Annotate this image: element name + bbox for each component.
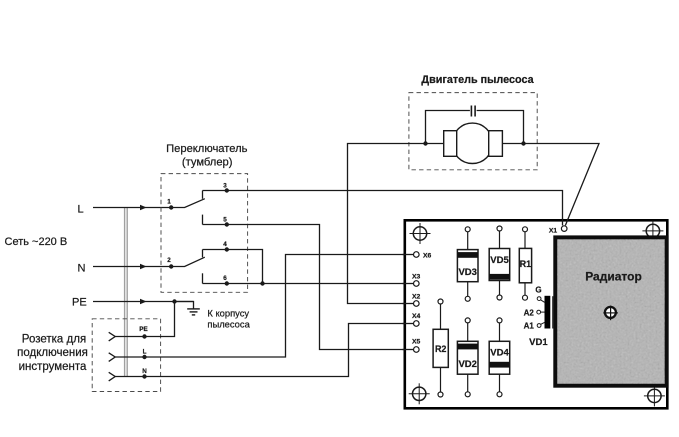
svg-text:пылесоса: пылесоса <box>207 319 250 330</box>
svg-text:N: N <box>142 368 147 375</box>
diode VD2 <box>457 318 478 397</box>
contact 3 stub <box>202 191 204 199</box>
wire socket L to X6 <box>115 255 413 358</box>
arrow N <box>140 264 147 270</box>
wire PE to ground <box>175 302 194 309</box>
svg-text:L: L <box>143 348 147 355</box>
wire capacitor branch <box>426 111 524 144</box>
svg-text:подключения: подключения <box>17 347 88 359</box>
diode VD3 <box>457 227 478 301</box>
wire motor left lead to X2 <box>348 144 444 304</box>
switch pole 1 lever <box>171 199 205 208</box>
svg-text:X6: X6 <box>423 253 432 260</box>
svg-text:Двигатель пылесоса: Двигатель пылесоса <box>421 74 534 86</box>
svg-text:VD5: VD5 <box>490 255 509 266</box>
switch box dashed <box>161 174 248 293</box>
triac VD1 <box>524 286 553 349</box>
svg-text:4: 4 <box>223 241 227 248</box>
mounting hole bottom-right <box>644 385 665 406</box>
heatsink hole <box>603 306 618 321</box>
node 2 <box>169 264 173 268</box>
wire stub X4 <box>403 323 414 325</box>
svg-text:VD2: VD2 <box>458 359 476 370</box>
terminal X2 <box>414 301 420 307</box>
PCB board <box>405 220 668 408</box>
resistor R1 <box>519 227 531 300</box>
motor brush left <box>444 131 457 157</box>
wire contact3 into X1 over border <box>562 219 564 226</box>
wire contact4 to junction <box>203 250 263 284</box>
socket box dashed <box>92 319 160 392</box>
wire PE branch to socket <box>115 302 174 337</box>
svg-text:5: 5 <box>223 217 227 224</box>
node socket PE <box>142 334 146 338</box>
switch pole 2 lever <box>171 257 205 266</box>
diode VD5 <box>489 226 510 300</box>
svg-text:VD4: VD4 <box>490 348 509 359</box>
pin A2 <box>541 311 545 313</box>
svg-text:R2: R2 <box>435 344 447 354</box>
wire PE <box>93 301 194 303</box>
node 3 <box>225 188 229 192</box>
wire motor right lead <box>502 144 599 226</box>
contact 4 stub <box>202 250 204 258</box>
node 1 <box>169 205 173 209</box>
mounting hole top-right <box>642 220 663 241</box>
svg-text:Радиатор: Радиатор <box>585 269 642 283</box>
terminal X4 <box>414 321 420 327</box>
socket L prong <box>109 353 116 362</box>
svg-text:2: 2 <box>167 257 171 264</box>
wire stub X6 <box>403 254 414 256</box>
motor brush right <box>489 131 503 157</box>
cable gray line <box>125 208 128 377</box>
svg-text:VD3: VD3 <box>458 267 476 278</box>
wire N <box>93 266 171 268</box>
diode VD4 <box>489 318 510 397</box>
terminal X1 <box>561 226 567 232</box>
mounting hole bottom-left <box>409 383 430 404</box>
mounting hole top-left <box>410 223 431 244</box>
terminal X5 <box>414 347 420 353</box>
svg-text:1: 1 <box>167 199 171 206</box>
svg-text:Розетка для: Розетка для <box>22 334 86 346</box>
svg-text:Переключатель: Переключатель <box>166 143 248 155</box>
svg-text:R1: R1 <box>520 259 532 269</box>
node socket L <box>142 355 146 359</box>
wire motor lead into X1 over border <box>565 219 568 226</box>
svg-text:Сеть ~220 В: Сеть ~220 В <box>5 236 68 248</box>
wire contact6 to X3 <box>203 283 414 285</box>
wire contact3 to X1 <box>203 191 563 226</box>
svg-text:PE: PE <box>72 297 87 309</box>
ground <box>187 309 200 315</box>
svg-text:X5: X5 <box>412 339 421 346</box>
svg-text:G: G <box>535 286 541 295</box>
wire stub X2 <box>403 303 414 305</box>
pin G <box>541 300 545 303</box>
motor M1 rotor <box>452 123 492 163</box>
capacitor C <box>471 106 475 117</box>
terminal X6 <box>414 252 420 258</box>
contact 6 stub <box>202 273 204 283</box>
node 4 <box>225 247 229 251</box>
svg-text:PE: PE <box>139 326 147 333</box>
svg-text:A1: A1 <box>524 322 535 331</box>
svg-text:A2: A2 <box>524 308 535 317</box>
resistor R2 <box>433 299 448 397</box>
junction 4-6 <box>260 281 264 285</box>
svg-text:инструмента: инструмента <box>19 361 87 373</box>
node socket N <box>142 374 146 378</box>
motor box dashed <box>409 93 537 170</box>
node 6 <box>225 281 229 285</box>
svg-text:L: L <box>78 204 84 216</box>
svg-text:X1: X1 <box>549 228 558 235</box>
svg-text:6: 6 <box>223 275 227 282</box>
pin A1 <box>541 322 545 324</box>
svg-text:(тумблер): (тумблер) <box>182 157 233 169</box>
socket PE prong <box>109 332 116 341</box>
node motor left <box>423 141 427 145</box>
svg-text:N: N <box>78 263 86 275</box>
contact 5 stub <box>202 215 204 225</box>
svg-text:К корпусу: К корпусу <box>207 307 249 318</box>
node PE junction <box>172 299 176 303</box>
svg-text:X4: X4 <box>412 313 421 320</box>
node motor right <box>521 141 525 145</box>
heatsink Радиатор <box>555 237 666 385</box>
node 5 <box>225 222 229 226</box>
wire stub X3 <box>403 283 414 285</box>
arrow L <box>140 205 147 211</box>
svg-text:VD1: VD1 <box>529 337 548 348</box>
svg-text:X3: X3 <box>412 274 421 281</box>
terminal X3 <box>414 281 420 287</box>
wire L <box>93 207 171 209</box>
svg-text:X2: X2 <box>412 293 421 300</box>
socket N prong <box>109 372 116 381</box>
wire contact5 to X5 <box>203 225 414 350</box>
svg-text:3: 3 <box>223 182 227 189</box>
wire socket N to X4 <box>115 324 413 377</box>
arrow PE <box>140 299 147 305</box>
wire stub X5 <box>403 349 414 351</box>
